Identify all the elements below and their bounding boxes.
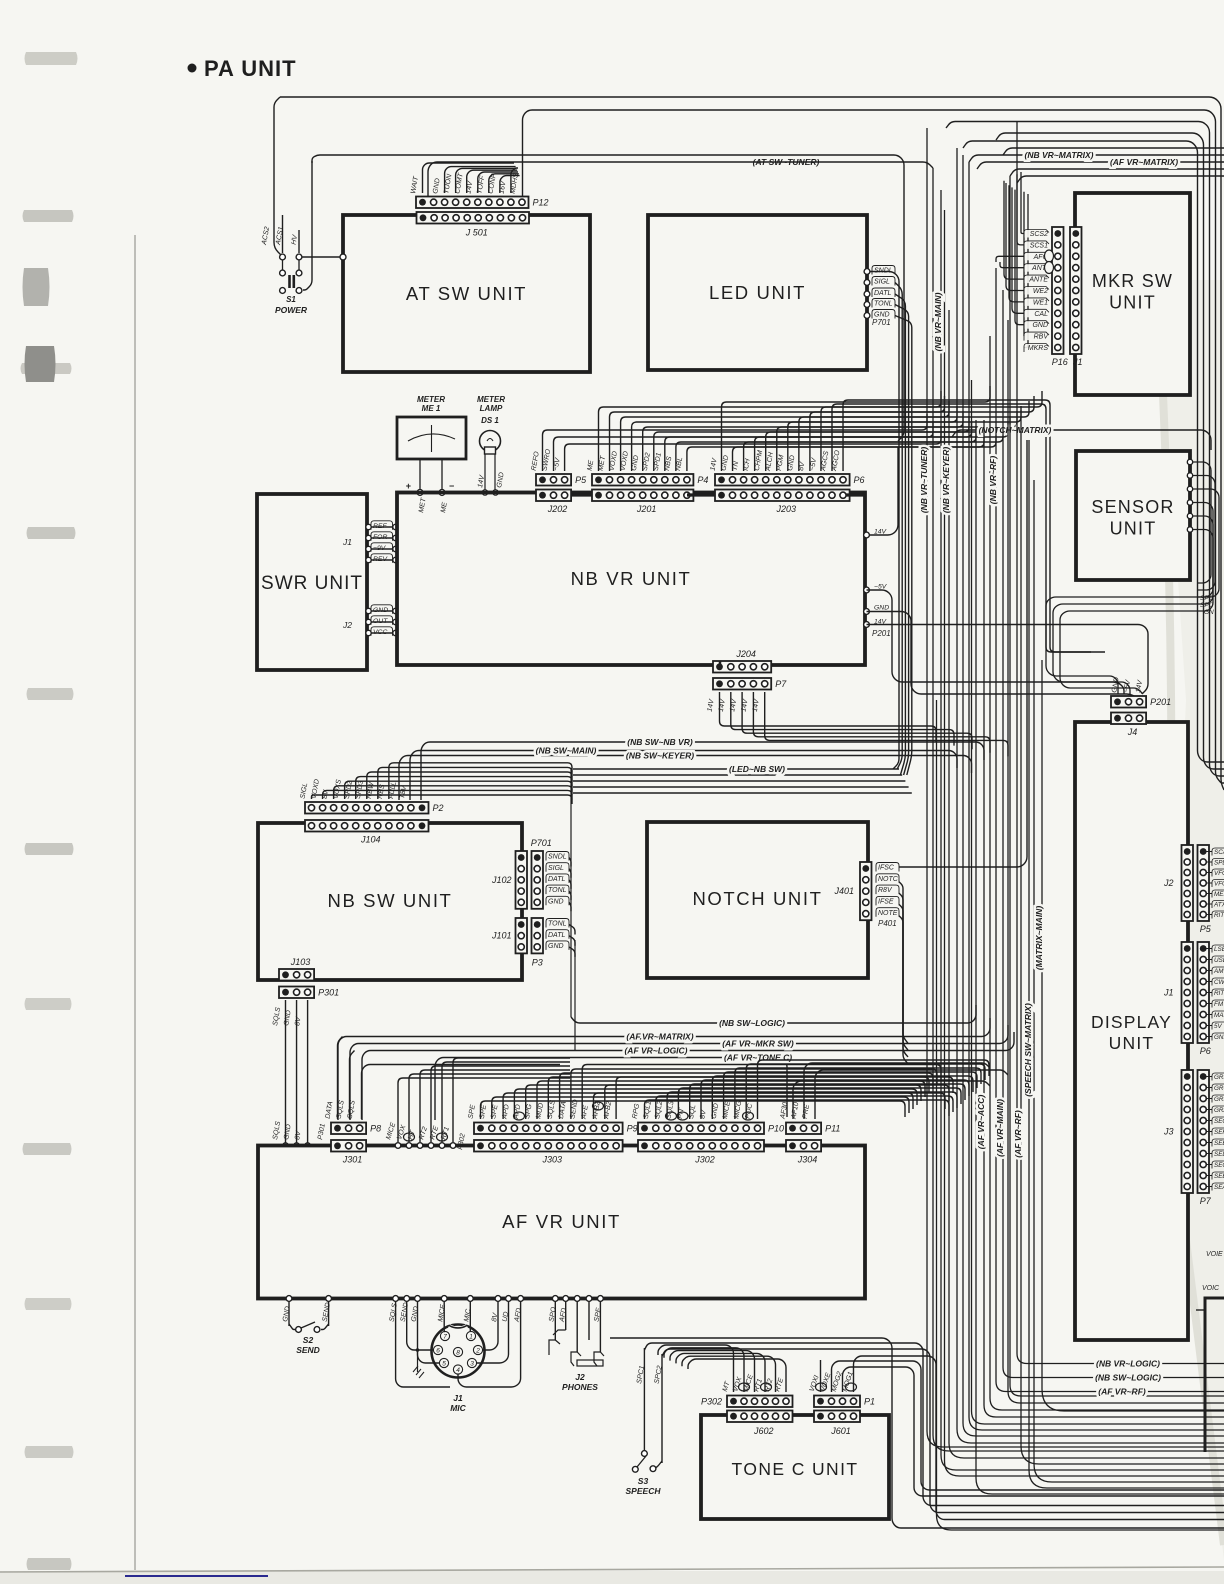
svg-text:GN: GN bbox=[1204, 609, 1214, 616]
pin SWR J2 VCC left bbox=[366, 630, 371, 635]
wire P302 tone riser 5 bbox=[682, 1356, 776, 1392]
oval on APD wire P9 bbox=[514, 1112, 525, 1120]
svg-text:PA UNIT: PA UNIT bbox=[204, 56, 297, 81]
svg-text:P701: P701 bbox=[872, 318, 891, 327]
wire UD to J1 pin3 bbox=[477, 1301, 509, 1363]
svg-text:J203: J203 bbox=[776, 504, 797, 514]
pin SWR J2 GND right bbox=[393, 608, 398, 613]
wire P4 pin9 up bbox=[687, 431, 984, 471]
svg-text:J301: J301 bbox=[342, 1155, 363, 1165]
svg-text:SNDL: SNDL bbox=[548, 854, 567, 861]
wire P12 pin4 riser bbox=[456, 168, 517, 193]
wire P6 pin11 up-down bbox=[832, 404, 1091, 652]
svg-text:ATX: ATX bbox=[1213, 901, 1224, 908]
wire P4 pin2 up bbox=[610, 396, 945, 471]
wire top line y=169 right exit bbox=[1010, 169, 1224, 176]
wire P302 afvr pin3 riser bbox=[420, 1070, 570, 1142]
wire P302 tone riser 6 bbox=[688, 1359, 786, 1392]
svg-text:(AF VR~ACC): (AF VR~ACC) bbox=[976, 1095, 986, 1150]
pin SWR REF left bbox=[366, 524, 371, 529]
svg-text:SEF: SEF bbox=[1214, 1129, 1224, 1136]
svg-text:(NB VR~MAIN): (NB VR~MAIN) bbox=[933, 292, 943, 351]
svg-text:6: 6 bbox=[436, 1348, 440, 1355]
wire P701 SNDL curl bbox=[569, 858, 571, 867]
connector J401 bbox=[860, 862, 872, 920]
wire top bus line 1 (y=97) to right margin exit bbox=[280, 97, 1224, 790]
oval on VOX wire P302 bbox=[404, 1133, 415, 1141]
wire P12 pin7 riser bbox=[489, 174, 519, 193]
svg-text:7: 7 bbox=[443, 1334, 447, 1341]
wire P9 pin12 riser bbox=[605, 1085, 949, 1119]
svg-text:S1: S1 bbox=[286, 295, 296, 304]
wire P9 pin2 riser bbox=[492, 1097, 909, 1119]
tag NOTE at J401 bbox=[876, 908, 899, 917]
svg-text:(NB SW~MAIN): (NB SW~MAIN) bbox=[536, 746, 597, 756]
lamp legs bbox=[484, 454, 486, 492]
wire P12 pin5 riser bbox=[467, 170, 518, 193]
pin label tags P7 (display) bbox=[1207, 1076, 1213, 1078]
connector P701 (NB SW side) bbox=[532, 851, 544, 909]
wire P9 pin13 riser bbox=[616, 1077, 953, 1119]
pin SWR J2 OUT right bbox=[393, 619, 398, 624]
wire P8 pin3 riser bbox=[362, 1065, 561, 1120]
J1 chassis mark bbox=[413, 1366, 424, 1378]
wire J401 R8V curl down bbox=[899, 893, 908, 1050]
svg-text:DATL: DATL bbox=[548, 876, 565, 883]
wire AF VR~MKR SW line bbox=[350, 1025, 1008, 1120]
svg-text:USB: USB bbox=[1214, 957, 1224, 964]
svg-text:PHONES: PHONES bbox=[562, 1382, 598, 1392]
svg-text:SEB: SEB bbox=[1214, 1173, 1224, 1180]
wire P6 pin5 up bbox=[766, 416, 1010, 471]
connector P302 (AF VR) pins bbox=[395, 1143, 401, 1149]
wire P10 pin6 riser bbox=[701, 1080, 969, 1119]
connector P301 bbox=[279, 987, 314, 999]
svg-text:P10: P10 bbox=[768, 1123, 784, 1133]
right page crease shading bbox=[1158, 280, 1224, 1560]
oval on SQL3 wire P10 bbox=[677, 1112, 688, 1120]
wire S2 left bend bbox=[289, 1324, 295, 1330]
meter pin ME (redraw) bbox=[439, 490, 445, 496]
tag GND at P701 bbox=[546, 896, 569, 905]
svg-text:LED UNIT: LED UNIT bbox=[709, 282, 806, 303]
svg-text:J1: J1 bbox=[1072, 357, 1083, 367]
wire P9 pin1 riser bbox=[481, 1101, 906, 1119]
binding hole marks (decorative) bbox=[25, 52, 78, 65]
svg-text:SCA: SCA bbox=[1214, 849, 1224, 856]
pin NB VR GND bbox=[864, 609, 870, 615]
svg-text:1: 1 bbox=[469, 1334, 473, 1341]
wire P4 pin8 up bbox=[676, 426, 976, 471]
wire 14V NB VR to x=904 vertical bbox=[867, 447, 899, 535]
svg-text:(NB VR~RF): (NB VR~RF) bbox=[988, 456, 998, 505]
tag FOR SWR J1 bbox=[371, 532, 393, 541]
lamp pin 14V bbox=[482, 490, 487, 495]
wire phones line to nest bbox=[610, 1338, 1224, 1528]
wire P1 pin3 riser bbox=[843, 1367, 1224, 1496]
svg-text:(AF.VR~MATRIX): (AF.VR~MATRIX) bbox=[626, 1032, 693, 1042]
connector J2 (display) bbox=[1182, 845, 1194, 921]
vertical bundle right of J101 bbox=[574, 940, 576, 1050]
tag &#8722;9V SWR J1 bbox=[371, 543, 393, 552]
svg-text:J1: J1 bbox=[453, 1393, 463, 1403]
tag DATL at P3 bbox=[546, 930, 569, 939]
svg-text:8: 8 bbox=[456, 1350, 460, 1357]
svg-text:WE2: WE2 bbox=[1033, 288, 1048, 295]
wire P9 pin10 riser bbox=[582, 1065, 941, 1120]
wire P9 pin8 riser bbox=[560, 1073, 933, 1119]
svg-text:UNIT: UNIT bbox=[1109, 1033, 1155, 1053]
wire P5 pin3 up bbox=[565, 428, 941, 471]
wire NOTCH~MATRIX line bbox=[952, 430, 1211, 450]
svg-text:VOIC: VOIC bbox=[1202, 1285, 1220, 1292]
connector J301 bbox=[331, 1140, 366, 1152]
wire P2 pin3 riser bbox=[334, 786, 572, 799]
wire P12 pin1 riser bbox=[423, 163, 515, 193]
wire P8 pin2 riser bbox=[350, 1051, 355, 1120]
svg-text:(NB SW~LOGIC): (NB SW~LOGIC) bbox=[719, 1018, 785, 1028]
svg-text:P5: P5 bbox=[575, 475, 587, 485]
wire P9 pin3 riser bbox=[503, 1093, 913, 1119]
svg-text:GND: GND bbox=[548, 898, 564, 905]
connector P16 bbox=[1052, 227, 1064, 354]
svg-text:GND: GND bbox=[548, 943, 564, 950]
wire P9 pin11 riser bbox=[594, 1093, 946, 1119]
wire P6 pin9 up bbox=[810, 396, 1034, 471]
svg-text:NOTCH UNIT: NOTCH UNIT bbox=[692, 888, 822, 909]
wire (NB VR~MATRIX) line y=155 bbox=[969, 155, 1224, 162]
pin SWR FOR left bbox=[366, 535, 371, 540]
wire S1 to AT SW node bbox=[302, 256, 340, 258]
wire P6 pin2 up bbox=[733, 431, 997, 471]
wire P2 pin2 riser bbox=[323, 790, 572, 799]
svg-text:P3: P3 bbox=[532, 957, 543, 967]
pin label tags P5 (display) bbox=[1207, 851, 1213, 853]
wire LED~NB SW bundle line 3 bbox=[573, 780, 905, 782]
lamp pin 14V (redraw) bbox=[482, 490, 487, 495]
svg-text:J1: J1 bbox=[1163, 988, 1174, 998]
tag REV SWR J1 bbox=[371, 554, 393, 563]
wire P6 pin1 up bbox=[722, 386, 991, 471]
connector J201 bbox=[592, 490, 693, 502]
wire SPC1 top bend bbox=[644, 1343, 1224, 1506]
wire P4 pin5 up bbox=[643, 411, 963, 471]
tag VCC SWR J2 bbox=[371, 627, 393, 636]
thick stub NB VR to J204 bbox=[719, 661, 722, 665]
pin NB VR 14V upper bbox=[864, 532, 870, 538]
svg-text:VFO: VFO bbox=[1214, 870, 1224, 877]
svg-text:GRB: GRB bbox=[1214, 1096, 1224, 1103]
svg-text:GRA: GRA bbox=[1214, 1107, 1224, 1114]
wire top line y=176 right exit bbox=[1017, 176, 1224, 183]
svg-text:P5: P5 bbox=[1200, 924, 1212, 934]
svg-text:VOIE: VOIE bbox=[1206, 1251, 1223, 1258]
tag OUT SWR J2 bbox=[371, 616, 393, 625]
S1 contact b1 bbox=[280, 270, 286, 276]
wire P302 afvr pin4 riser bbox=[431, 1066, 570, 1142]
wire AFD2 down bbox=[565, 1301, 567, 1330]
connector J101 bbox=[516, 918, 528, 953]
wire top bus line 4 (y=133) right exit bbox=[996, 133, 1224, 769]
pin SWR &#8722;9V right bbox=[393, 546, 398, 551]
svg-text:J201: J201 bbox=[636, 504, 657, 514]
wire P10 pin8 riser bbox=[724, 1072, 977, 1119]
wire P1 pin2 riser bbox=[832, 1361, 1224, 1490]
connector J1 (display) bbox=[1182, 942, 1194, 1043]
svg-text:SPEECH: SPEECH bbox=[626, 1486, 662, 1496]
meter ME1 body bbox=[397, 417, 466, 459]
svg-text:METER: METER bbox=[417, 395, 445, 404]
svg-text:SEG: SEG bbox=[1214, 1118, 1224, 1125]
connector J501 bbox=[417, 212, 530, 224]
svg-text:UNIT: UNIT bbox=[1110, 519, 1157, 539]
left fold line bbox=[134, 235, 136, 1570]
svg-text:P6: P6 bbox=[854, 475, 865, 485]
wire SWR J1 REF bbox=[367, 526, 397, 528]
wire SWR J1 FOR bbox=[367, 537, 397, 539]
svg-text:CW: CW bbox=[1214, 979, 1224, 986]
wire NB SW~KEYER line bbox=[399, 756, 972, 801]
wire P302 afvr pin1 riser bbox=[398, 1078, 570, 1142]
svg-text:+: + bbox=[406, 481, 411, 491]
svg-text:OUT: OUT bbox=[373, 618, 388, 625]
svg-text:METER: METER bbox=[477, 395, 505, 404]
meter pin MET bbox=[417, 490, 423, 496]
wire P7 pin1 down-right bbox=[720, 692, 937, 742]
wire SPC1 bbox=[643, 1348, 645, 1450]
svg-text:P2: P2 bbox=[433, 803, 444, 813]
unit box NOTCH UNIT bbox=[647, 822, 868, 978]
svg-text:J2: J2 bbox=[342, 620, 352, 630]
wire AF VR~TONE C line bbox=[435, 1058, 787, 1121]
svg-text:DS 1: DS 1 bbox=[481, 416, 499, 425]
connector P302 (TONE C) bbox=[727, 1396, 793, 1408]
wire top bus line 6 (y=148) right exit bbox=[1003, 148, 1224, 155]
svg-text:J4: J4 bbox=[1127, 727, 1138, 737]
wire ACS1 stub bbox=[282, 215, 284, 253]
svg-text:(LED~NB SW): (LED~NB SW) bbox=[729, 764, 785, 774]
tag GND at LED P701 bbox=[872, 310, 895, 319]
svg-text:−9V: −9V bbox=[373, 545, 387, 552]
wire SPE down b bbox=[588, 1301, 590, 1340]
wire P1 pin1 riser bbox=[820, 1360, 822, 1392]
tag SNDL at LED P701 bbox=[872, 266, 895, 275]
svg-text:S2: S2 bbox=[303, 1335, 314, 1345]
wire P5 pin1 up bbox=[543, 414, 928, 471]
svg-text:(NB SW~KEYER): (NB SW~KEYER) bbox=[626, 751, 694, 761]
svg-text:(AF VR~MAIN): (AF VR~MAIN) bbox=[995, 1099, 1005, 1157]
svg-text:GND: GND bbox=[1214, 1034, 1224, 1041]
wire P7 pin5 down-right bbox=[765, 692, 1008, 756]
wire P302 afvr pin6 riser bbox=[453, 1058, 570, 1142]
meter legs bbox=[419, 459, 421, 492]
unit box DISPLAY UNIT bbox=[1075, 722, 1188, 1340]
wire P4 pin7 up bbox=[665, 421, 972, 471]
connector P201 (display) bbox=[1111, 696, 1146, 708]
wire P3 TONL curl bbox=[569, 925, 575, 935]
tag NOTC at J401 bbox=[876, 874, 899, 883]
pin NB VR 14V lower bbox=[864, 622, 870, 628]
svg-text:UNIT: UNIT bbox=[1109, 293, 1156, 313]
wire AFD to J1 pin4 bbox=[458, 1301, 521, 1387]
oval on RTE wire P302 bbox=[437, 1133, 448, 1141]
wire P6 pin3 up bbox=[744, 426, 1003, 471]
wire S3 right bend bbox=[656, 1461, 662, 1468]
svg-text:P701: P701 bbox=[531, 838, 552, 848]
unit box NB SW UNIT bbox=[258, 823, 522, 980]
svg-text:SEC: SEC bbox=[1214, 1162, 1224, 1169]
connector P7 (display) bbox=[1198, 1070, 1210, 1193]
svg-text:SPL: SPL bbox=[1214, 859, 1224, 866]
wire into partial box a bbox=[1196, 1309, 1205, 1311]
wire SPE down a bbox=[576, 1301, 578, 1352]
wire MICE to J1 pin7 bbox=[443, 1301, 446, 1332]
meter pin MET (redraw) bbox=[417, 490, 423, 496]
wire SPC2 bbox=[661, 1354, 663, 1463]
svg-text:(NB VR~KEYER): (NB VR~KEYER) bbox=[941, 447, 951, 514]
lamp pin GND bbox=[493, 490, 498, 495]
wire J401 NOTC curl down bbox=[899, 882, 908, 1044]
connector P10 bbox=[638, 1123, 764, 1135]
tag DATL at LED P701 bbox=[872, 288, 895, 297]
connector J204 bbox=[713, 661, 771, 673]
wire P2 pin1 riser bbox=[312, 795, 573, 804]
wire SQLS to J1 area bbox=[396, 1301, 450, 1387]
wire P12 pin6 riser bbox=[478, 172, 518, 193]
wire P10 pin9 riser bbox=[735, 1068, 981, 1119]
svg-text:SCS1: SCS1 bbox=[1030, 242, 1048, 249]
connector P5 (display) bbox=[1198, 845, 1210, 921]
svg-text:J202: J202 bbox=[547, 504, 568, 514]
svg-text:RIT: RIT bbox=[1214, 912, 1224, 919]
pin P301 wire at AF VR edge pin1 bbox=[283, 1143, 288, 1148]
tag REF SWR J1 bbox=[371, 521, 393, 530]
svg-text:J101: J101 bbox=[491, 931, 512, 941]
node on AT SW left edge bbox=[340, 254, 346, 260]
wire P7 pin4 down-right bbox=[753, 692, 990, 753]
S1 contact a2 bbox=[296, 254, 302, 260]
wire J401 IFSE curl down bbox=[899, 904, 908, 1057]
svg-text:GRC: GRC bbox=[1214, 1085, 1224, 1092]
wire P302 tone riser 3 bbox=[670, 1351, 755, 1392]
svg-text:SPC: SPC bbox=[1200, 602, 1214, 609]
svg-text:MKRS: MKRS bbox=[1028, 345, 1049, 352]
pin SWR REV right bbox=[393, 557, 398, 562]
tag IFSE at J401 bbox=[876, 896, 899, 905]
tag GND SWR J2 bbox=[371, 605, 393, 614]
wire P701 DATL curl bbox=[569, 880, 571, 889]
S3 lever bbox=[637, 1456, 646, 1467]
svg-text:J 501: J 501 bbox=[465, 228, 488, 238]
svg-text:SENSOR: SENSOR bbox=[1091, 497, 1174, 517]
connector P1 bbox=[814, 1396, 860, 1408]
unit box LED UNIT bbox=[648, 215, 867, 370]
svg-text:SCS2: SCS2 bbox=[1030, 231, 1048, 238]
tag SNDL at P701 bbox=[546, 852, 569, 861]
svg-text:IFSC: IFSC bbox=[878, 865, 895, 872]
svg-text:NOTE: NOTE bbox=[878, 910, 898, 917]
svg-text:(AF VR~LOGIC): (AF VR~LOGIC) bbox=[624, 1046, 687, 1056]
wire P2 pin7 riser bbox=[378, 767, 572, 799]
svg-text:(AF VR~MKR SW): (AF VR~MKR SW) bbox=[722, 1039, 794, 1049]
unit box AT SW UNIT bbox=[343, 215, 590, 372]
oval on AFO wire bbox=[1045, 250, 1054, 262]
pin P301 wire at AF VR edge pin3 bbox=[305, 1143, 310, 1148]
wire P2 pin8 riser bbox=[389, 763, 572, 799]
connector P6 bbox=[715, 474, 850, 486]
svg-text:P302: P302 bbox=[701, 1396, 722, 1406]
svg-text:J1: J1 bbox=[342, 537, 352, 547]
wire SPO down bbox=[554, 1301, 556, 1340]
tag SIGL at LED P701 bbox=[872, 277, 895, 286]
connector J3 (display) bbox=[1182, 1070, 1194, 1193]
wire P6 pin12 up-down bbox=[843, 400, 1105, 652]
oval on MOG1 wire P1 bbox=[846, 1383, 857, 1391]
svg-text:P1: P1 bbox=[864, 1396, 875, 1406]
connector J1 (MKR SW) bbox=[1070, 227, 1082, 354]
connector P7 bbox=[713, 678, 771, 690]
lamp DS1 symbol bbox=[480, 431, 501, 452]
connector J602 bbox=[727, 1411, 793, 1423]
connector J303 bbox=[474, 1140, 623, 1152]
svg-text:P6: P6 bbox=[1200, 1046, 1211, 1056]
wire NB SW~MAIN line bbox=[410, 751, 957, 801]
wire ACS2 from top bus to S1 bbox=[274, 97, 282, 256]
wire SWR J2 GND bbox=[367, 610, 397, 612]
svg-text:P16: P16 bbox=[1052, 357, 1068, 367]
pin P301 wire at AF VR edge pin2 bbox=[294, 1143, 299, 1148]
svg-text:(AF VR~RF): (AF VR~RF) bbox=[1098, 1387, 1146, 1397]
oval on VOX wire TONE C bbox=[739, 1383, 750, 1391]
J1 ground stub bbox=[417, 1350, 419, 1372]
wire P4 pin1 up bbox=[599, 391, 942, 471]
wire P2 pin5 riser bbox=[356, 777, 572, 799]
wire P701 SIGL curl bbox=[569, 869, 571, 878]
wire AF VR~LOGIC line bbox=[362, 1032, 1014, 1120]
wire P7 pin3 down-right bbox=[742, 692, 972, 749]
tag TONL at P3 bbox=[546, 919, 569, 928]
svg-text:GND: GND bbox=[874, 605, 889, 612]
wire P6 pin6 up bbox=[777, 411, 1017, 471]
svg-text:GRD: GRD bbox=[1214, 1074, 1224, 1081]
svg-text:SWR UNIT: SWR UNIT bbox=[261, 573, 363, 594]
wire P10 pin3 riser bbox=[667, 1092, 957, 1119]
wire S2 left bbox=[288, 1301, 290, 1326]
svg-text:(MATRIX~MAIN): (MATRIX~MAIN) bbox=[1034, 906, 1044, 970]
wire P9 pin5 riser bbox=[526, 1085, 921, 1119]
pin SWR J2 OUT left bbox=[366, 619, 371, 624]
svg-text:GND: GND bbox=[1032, 322, 1048, 329]
connector J102 bbox=[516, 851, 528, 909]
page bottom backing strip bbox=[0, 1571, 1224, 1584]
svg-text:WE1: WE1 bbox=[1033, 299, 1048, 306]
svg-text:RBV: RBV bbox=[1034, 334, 1050, 341]
pin SWR J2 GND left bbox=[366, 608, 371, 613]
svg-text:P8: P8 bbox=[370, 1123, 381, 1133]
wire SPC2 top bend bbox=[662, 1349, 1224, 1513]
wire P6 pin4 up bbox=[755, 421, 1008, 471]
vertical bundle right of J102 bbox=[570, 769, 572, 1017]
svg-text:CAL: CAL bbox=[1034, 311, 1048, 318]
svg-text:3: 3 bbox=[470, 1361, 474, 1368]
wire MIC to J1 pin1 bbox=[469, 1301, 471, 1331]
oval on SQL2 wire P10 bbox=[666, 1112, 677, 1120]
wires P16 pins fed from top matrix verticals bbox=[1021, 172, 1024, 234]
svg-text:SIGL: SIGL bbox=[874, 279, 890, 286]
svg-text:P4: P4 bbox=[697, 475, 708, 485]
wire P701 GND curl bbox=[569, 902, 571, 911]
thick wire meter row bbox=[397, 493, 865, 496]
